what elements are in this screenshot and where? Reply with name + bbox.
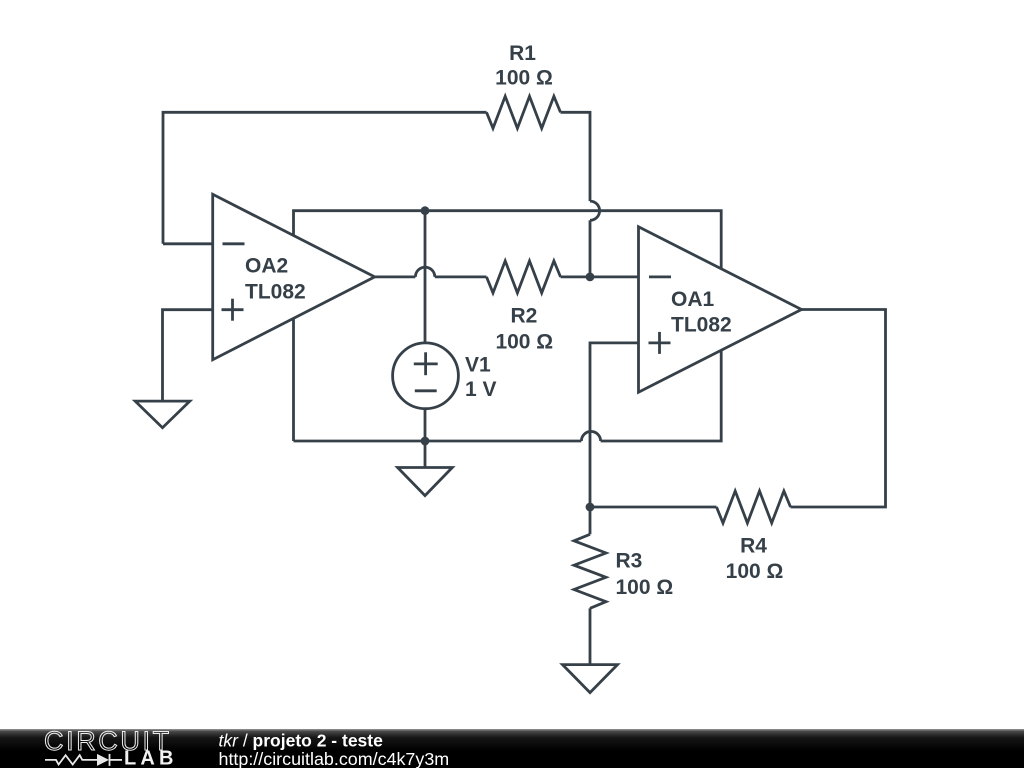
resistor R4: [717, 491, 791, 583]
svg-text:100 Ω: 100 Ω: [495, 67, 553, 90]
wire hop over V1 column: [415, 267, 434, 277]
wire V1 bottom to ground: [424, 409, 427, 468]
ground center: [398, 468, 453, 496]
node dot top rail / V1: [421, 206, 430, 215]
wire OA1 output loop: [791, 310, 886, 508]
svg-text:http://circuitlab.com/c4k7y3m: http://circuitlab.com/c4k7y3m: [219, 749, 450, 768]
svg-text:V1: V1: [465, 354, 491, 377]
logo resistor-diode glyph: [45, 754, 122, 766]
wire R1 to vertical drop: [561, 112, 591, 201]
resistor R2: [487, 261, 561, 354]
resistor R3: [574, 534, 673, 608]
wire OA2 output: [375, 275, 416, 278]
ground bottom: [563, 665, 618, 693]
wire OA1 plus input: [590, 343, 639, 507]
wire feedback top-left: [163, 112, 487, 244]
footer bar: [0, 729, 1024, 768]
svg-text:TL082: TL082: [245, 281, 306, 304]
svg-text:100 Ω: 100 Ω: [495, 330, 553, 353]
svg-text:TL082: TL082: [671, 314, 732, 337]
OA1 inverting input marker: [649, 275, 671, 278]
op-amp OA2: [213, 194, 375, 359]
wire R3 top lead: [589, 507, 592, 534]
wire hop over plus-drop column: [581, 431, 600, 441]
OA2 inverting input marker: [223, 242, 245, 245]
node dot R2/R1/OA1: [586, 273, 595, 282]
wire OA2 V- stub: [292, 318, 295, 441]
svg-text:100 Ω: 100 Ω: [726, 560, 784, 583]
svg-text:100 Ω: 100 Ω: [616, 576, 674, 599]
svg-text:OA2: OA2: [245, 255, 288, 278]
resistor R1: [487, 42, 561, 128]
OA2 non-inverting input marker: [222, 308, 244, 311]
wire R3 to ground: [589, 608, 592, 664]
V1 minus terminal marker: [415, 389, 437, 392]
node dot R3/R4: [586, 503, 595, 512]
node dot V1/bottom rail: [421, 437, 430, 446]
svg-text:OA1: OA1: [671, 288, 715, 311]
wire top power rail: [294, 211, 722, 269]
svg-text:tkr / projeto 2 - teste: tkr / projeto 2 - teste: [219, 730, 384, 750]
ground left: [135, 401, 190, 428]
svg-text:1 V: 1 V: [465, 378, 497, 401]
svg-text:R2: R2: [510, 305, 537, 328]
wire hop over top rail: [590, 201, 600, 220]
wire R2 to OA1 minus: [561, 275, 639, 278]
wire R4 left lead: [590, 506, 717, 509]
wire OA2 plus input: [163, 310, 213, 401]
wire V1 top: [424, 211, 427, 343]
svg-text:R4: R4: [740, 535, 767, 558]
voltage source V1: [393, 343, 497, 409]
OA1 non-inverting input marker: [649, 341, 671, 344]
op-amp OA1: [639, 227, 802, 392]
wire bottom power rail right: [601, 350, 722, 441]
V1 plus terminal marker: [414, 362, 438, 365]
svg-text:R3: R3: [616, 550, 643, 573]
svg-text:R1: R1: [509, 42, 536, 65]
wire drop to R2 node: [589, 220, 592, 277]
wire OA2 minus input: [163, 242, 213, 245]
wire to R2: [435, 275, 487, 278]
svg-text:LAB: LAB: [124, 748, 178, 768]
wire bottom power rail left: [294, 440, 582, 443]
